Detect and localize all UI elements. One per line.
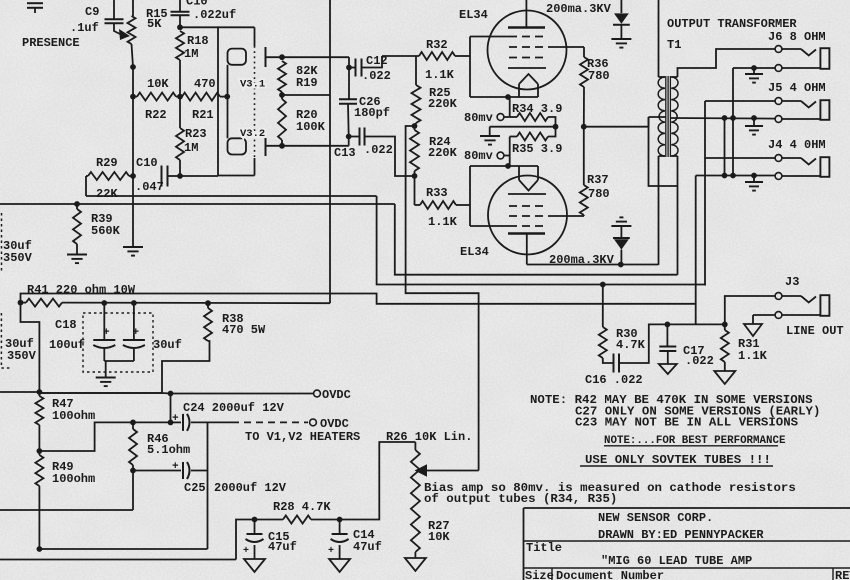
cap C18 section a 100uf [93, 303, 115, 361]
title label Document Number [556, 569, 664, 580]
grid3 row lower EL34 [509, 205, 548, 207]
ground (C14) [329, 559, 350, 572]
svg-text:R35 3.9: R35 3.9 [512, 142, 562, 156]
title label Size [525, 569, 554, 580]
title divider 2 [524, 567, 850, 569]
node pot/R22 [130, 94, 136, 100]
grid line V3 (dash-dot) [254, 27, 256, 175]
svg-text:TO V1,V2 HEATERS: TO V1,V2 HEATERS [245, 430, 360, 444]
node speaker line / R30 [600, 282, 606, 288]
ground (R39) [67, 255, 87, 264]
svg-text:C25: C25 [184, 481, 206, 495]
svg-text:V3.2: V3.2 [240, 128, 265, 140]
node R34/R35/gnd [553, 124, 559, 130]
svg-text:350V: 350V [3, 251, 33, 265]
svg-text:+: + [103, 327, 110, 339]
svg-text:100K: 100K [296, 120, 326, 134]
label 200ma.3KV lower [549, 253, 615, 267]
cathode bar V3.2 [266, 136, 283, 157]
secondary bottom lead [671, 156, 677, 275]
note C27 [575, 405, 820, 419]
wire left edge to R47 node [0, 391, 39, 393]
label PRESENCE [22, 36, 80, 50]
plate bracket V3.1 [228, 49, 247, 65]
svg-text:.022: .022 [364, 143, 393, 157]
svg-text:C24 2000uf 12V: C24 2000uf 12V [183, 401, 285, 415]
cathode wire upper EL34 [470, 94, 538, 100]
node R46 bottom [130, 468, 136, 474]
cathode wire lower EL34 [470, 163, 538, 169]
svg-text:R41 220 ohm 10W: R41 220 ohm 10W [27, 283, 136, 297]
capacitor C18 box (dashed) [49, 313, 153, 372]
wire common bus (R39 line) [0, 204, 678, 275]
resistor R31 1.1K [721, 324, 768, 371]
triode V3.1/V3.2 envelope box [218, 27, 255, 175]
center tap wire [649, 117, 678, 186]
svg-text:C23 MAY NOT BE IN ALL VERSIONS: C23 MAY NOT BE IN ALL VERSIONS [575, 416, 799, 430]
svg-text:LINE OUT: LINE OUT [786, 324, 844, 338]
svg-text:OVDC: OVDC [320, 417, 349, 431]
resistor R30 4.7K [599, 285, 646, 364]
resistor R21 470 [180, 77, 228, 122]
wire R19-R20 node to V3 bus [282, 94, 330, 96]
terminal OVDC lower [310, 417, 349, 431]
title block frame [524, 508, 850, 580]
svg-text:C13: C13 [334, 146, 356, 160]
jack J4 tip+body [705, 155, 829, 180]
ground (lower diode, inverted) [611, 217, 631, 226]
capacitor (cut off at top edge) [27, 3, 43, 13]
svg-text:"MIG 60 LEAD TUBE AMP: "MIG 60 LEAD TUBE AMP [601, 554, 752, 568]
capacitor C10 .047 [135, 156, 180, 194]
wire R47 node to C24 line [39, 422, 133, 451]
svg-text:780: 780 [588, 187, 610, 201]
svg-text:30uf: 30uf [153, 338, 182, 352]
primary bottom lead [659, 156, 666, 265]
wire R28 to R26 [340, 442, 416, 520]
note best performance [604, 435, 786, 447]
wire heater line upper [39, 392, 162, 394]
grid1 row upper EL34 [470, 36, 548, 38]
wire cathode node to ground [490, 127, 556, 136]
svg-text:+: + [172, 461, 179, 473]
svg-text:R32: R32 [426, 38, 448, 52]
label C24 2000uf 12V [183, 401, 285, 415]
svg-text:of output tubes (R34, R35): of output tubes (R34, R35) [424, 492, 617, 506]
note bias line2 [424, 492, 617, 506]
svg-text:780: 780 [588, 69, 610, 83]
plate bar lower EL34 [508, 232, 545, 234]
diode (flyback upper) [613, 0, 630, 39]
svg-text:80mv: 80mv [464, 111, 493, 125]
wire line-out node [667, 323, 724, 325]
node R49 bottom rail [37, 546, 43, 552]
wire V3.2 cathode to C13 node [282, 137, 349, 146]
svg-text:200ma.3KV: 200ma.3KV [546, 2, 612, 16]
svg-text:1M: 1M [184, 47, 198, 61]
svg-text:.047: .047 [135, 180, 164, 194]
node C16/C17/R31 line [665, 322, 671, 328]
resistor R37 780 [580, 127, 610, 216]
svg-text:C16 .022: C16 .022 [585, 373, 643, 387]
svg-text:V3.1: V3.1 [240, 79, 265, 91]
svg-text:1.1K: 1.1K [425, 68, 455, 82]
svg-text:R34 3.9: R34 3.9 [512, 102, 562, 116]
wire C24 to OVDC [191, 421, 308, 423]
primary top lead [659, 0, 666, 77]
svg-text:220K: 220K [428, 97, 458, 111]
svg-text:.022uf: .022uf [193, 8, 236, 22]
resistor R38 470 5W [39, 303, 266, 393]
label OUTPUT TRANSFORMER [667, 17, 797, 31]
svg-text:Title: Title [526, 541, 562, 555]
svg-text:EL34: EL34 [460, 245, 489, 259]
beam plate bar lower EL34 [508, 193, 546, 195]
svg-text:180pf: 180pf [354, 106, 390, 120]
svg-text:OUTPUT TRANSFORMER: OUTPUT TRANSFORMER [667, 17, 797, 31]
jack J6 tip+body [775, 46, 829, 72]
wire bottom rail 2 [0, 520, 255, 560]
grid3 row upper EL34 [509, 57, 548, 59]
wire R46 bottom to left rail [0, 471, 133, 511]
test point 80mv lower [464, 149, 510, 163]
secondary top lead [671, 49, 775, 77]
capacitor C14 47uf [328, 520, 382, 560]
capacitor C12 .022 [349, 54, 391, 83]
resistor R19 82K [278, 61, 318, 92]
jack J4 sleeve wire [696, 173, 775, 179]
svg-text:C9: C9 [85, 5, 99, 19]
node C13/C26 [346, 134, 352, 140]
plate bar upper EL34 [508, 26, 545, 28]
capacitor C16 .022 [585, 324, 667, 387]
svg-text:.1uf: .1uf [70, 21, 99, 35]
note R42 [530, 393, 813, 407]
node C18 cap2 [131, 300, 137, 306]
grid2 row upper EL34 [509, 46, 584, 48]
ground (R26/R27) [405, 552, 426, 571]
svg-text:22K: 22K [96, 187, 118, 201]
node R18/R21/R22 [177, 94, 183, 100]
node C15 [252, 517, 258, 523]
node C14 [337, 517, 343, 523]
ground (J5 sleeve) [745, 118, 763, 135]
capacitor C24 2000uf [133, 413, 190, 431]
label V3.1 [240, 79, 265, 91]
ground (presence pot) [123, 247, 143, 256]
potentiometer R15 5K (presence) [128, 0, 168, 67]
title label REV [833, 568, 850, 580]
node R25/R24/bias [412, 123, 418, 129]
ground (cathode R34/R35) [480, 136, 500, 145]
wire V3.1 cathode to C12 [282, 57, 349, 67]
resistor R39 560K [73, 201, 121, 254]
node R38 top [205, 300, 211, 306]
jack J6 sleeve wire [733, 65, 775, 71]
svg-text:80mv: 80mv [464, 149, 493, 163]
resistor R27 10K labels [428, 519, 450, 544]
svg-text:R19: R19 [296, 76, 318, 90]
svg-text:R22: R22 [145, 108, 167, 122]
cap C18 section b 30uf [123, 303, 145, 361]
jack J5 tip+body [705, 98, 829, 123]
svg-text:R18: R18 [187, 34, 209, 48]
label 200ma.3KV upper [546, 2, 612, 16]
label V3.2 [240, 128, 265, 140]
svg-text:47uf: 47uf [268, 540, 297, 554]
node C24 left [168, 420, 174, 426]
cathode drop to R34 [509, 97, 511, 117]
bias feed wire from R25/R24 node [406, 126, 479, 471]
svg-text:47uf: 47uf [353, 540, 382, 554]
svg-text:+: + [243, 546, 249, 557]
svg-text:5.1ohm: 5.1ohm [147, 443, 190, 457]
label J4 4 0HM [768, 138, 826, 152]
wire C10 node to V3 grid box [180, 26, 218, 28]
svg-text:R33: R33 [426, 186, 448, 200]
svg-text:100uf: 100uf [49, 338, 85, 352]
test point 80mv upper [464, 111, 510, 125]
node lower diode on plate bus [618, 262, 624, 268]
wiper arrow of presence pot [114, 23, 130, 40]
svg-text:Size: Size [525, 569, 554, 580]
label 30uf (C18b) [153, 338, 182, 352]
plate link V3.1-V3.2 with R21 node [224, 65, 230, 139]
wire supply line [21, 294, 696, 304]
title cell divider [551, 568, 553, 580]
label R28 4.7K [273, 500, 331, 514]
plate lead lower EL34 [526, 234, 528, 265]
svg-text:10K: 10K [147, 77, 169, 91]
wire C24/C25 right side down [207, 422, 209, 549]
cathode bar V3.1 [266, 47, 283, 67]
svg-text:4.7K: 4.7K [616, 338, 646, 352]
capacitor C15 47uf [243, 520, 297, 560]
node R36/R37/tap [581, 124, 587, 130]
tube EL34 lower envelope [460, 176, 567, 260]
capacitor C9 [70, 0, 124, 35]
title text MIG 60 [601, 554, 752, 568]
capacitor C10 .022uf (top) [171, 0, 237, 27]
note C23 [575, 416, 799, 430]
terminal OVDC upper [314, 388, 351, 402]
svg-text:100ohm: 100ohm [52, 472, 95, 486]
wire screen node to center tap [584, 126, 649, 128]
resistor R32 1.1K [382, 38, 470, 82]
wire C13 to R24/R33 node [365, 137, 415, 177]
transformer T1 primary winding [658, 77, 665, 156]
svg-text:350V: 350V [7, 349, 37, 363]
node V3.1 cathode [279, 54, 285, 60]
node R18/C10 top [177, 24, 183, 30]
filter cap box upper-left (30uf 350V) [2, 213, 33, 271]
title text NEW SENSOR CORP. [598, 511, 713, 525]
svg-text:.022: .022 [685, 354, 714, 368]
beam plate bar upper EL34 [508, 67, 546, 69]
wiper arrow R26 [415, 464, 479, 477]
transformer T1 secondary winding [671, 77, 678, 156]
wire R29 left to feedback line [85, 176, 87, 196]
jack J3 tip+body [725, 293, 830, 325]
resistor R29 22K [86, 156, 133, 201]
ground (C17) [659, 364, 677, 374]
wire V3.2 grid from C10 node [180, 175, 218, 177]
wire C26 bottom lead [347, 104, 350, 137]
capacitor C17 .022 [659, 324, 714, 368]
tap wire to J5 [670, 117, 775, 120]
label R26 10K Lin. [386, 430, 472, 444]
wire J5/J4 tip riser [704, 101, 706, 286]
resistor R28 4.7K [255, 516, 340, 524]
resistor R49 100ohm [35, 451, 95, 549]
ground (J4 sleeve) [745, 176, 763, 191]
wire C12 to R32 [362, 56, 383, 68]
svg-text:REV: REV [835, 569, 850, 580]
title label Title [526, 541, 562, 555]
note sovtek [580, 453, 773, 467]
ground (C15) [244, 559, 265, 572]
grid return box lower EL34 [469, 166, 471, 226]
label J6 8 OHM [768, 30, 826, 44]
resistor R47 100ohm [35, 392, 95, 451]
resistor R35 3.9 [510, 127, 563, 156]
grid return box upper EL34 [469, 37, 471, 98]
svg-text:C18: C18 [55, 318, 77, 332]
note bias line1 [424, 481, 796, 495]
ground (J6 sleeve) [745, 68, 763, 83]
node R29/C10/pot [130, 173, 136, 179]
title divider 1 [524, 540, 850, 542]
svg-text:EL34: EL34 [459, 8, 488, 22]
filter cap box lower-left (30uf 350V) [1, 313, 36, 368]
title text DRAWN BY [598, 528, 764, 542]
node R46 top [130, 420, 136, 426]
resistor R20 100K [278, 92, 326, 146]
label T1 [667, 38, 681, 52]
svg-text:C10: C10 [136, 156, 158, 170]
svg-text:J3: J3 [785, 275, 799, 289]
resistor R18 1M [176, 31, 209, 97]
wire bottom rail [39, 548, 207, 550]
wire feedback bus (R29 to speaker line) [86, 196, 705, 286]
resistor R24 220K [410, 126, 458, 176]
cathode upper EL34 [519, 74, 538, 97]
jack J3 sleeve wire [753, 315, 775, 324]
resistor R34 3.9 [510, 102, 563, 127]
svg-text:DRAWN BY:ED PENNYPACKER: DRAWN BY:ED PENNYPACKER [598, 528, 764, 542]
wire C18 negative bus [104, 361, 134, 377]
svg-text:J5 4 OHM: J5 4 OHM [768, 81, 826, 95]
svg-text:R26 10K Lin.: R26 10K Lin. [386, 430, 472, 444]
svg-text:USE ONLY SOVTEK TUBES !!!: USE ONLY SOVTEK TUBES !!! [585, 453, 771, 467]
transformer T1 core [666, 76, 671, 157]
wire C26 top lead [348, 68, 350, 100]
label TO V1,V2 HEATERS [245, 430, 360, 444]
capacitor C26 180pf [339, 95, 390, 120]
grid2 row lower EL34 [509, 215, 584, 217]
svg-text:J4 4 0HM: J4 4 0HM [768, 138, 826, 152]
svg-text:J6 8 OHM: J6 8 OHM [768, 30, 826, 44]
svg-text:R21: R21 [192, 108, 214, 122]
svg-text:220K: 220K [428, 146, 458, 160]
plate bracket V3.2 [228, 138, 247, 154]
svg-text:R28 4.7K: R28 4.7K [273, 500, 331, 514]
resistor R46 5.1ohm [129, 422, 190, 470]
svg-text:PRESENCE: PRESENCE [22, 36, 80, 50]
node R47 top [37, 389, 43, 395]
cathode riser lower EL34 [509, 137, 511, 167]
wire pot down to C10 node [132, 97, 134, 176]
capacitor C25 2000uf [133, 461, 287, 495]
resistor R36 780 [580, 47, 610, 127]
svg-text:+: + [172, 413, 179, 425]
resistor R33 1.1K [415, 176, 471, 229]
resistor R25 220K [412, 56, 458, 126]
svg-text:2000uf 12V: 2000uf 12V [214, 481, 287, 495]
svg-text:100ohm: 100ohm [52, 409, 95, 423]
svg-text:+: + [133, 327, 140, 339]
svg-text:+: + [328, 546, 334, 557]
svg-text:1.1K: 1.1K [428, 215, 458, 229]
svg-text:.022: .022 [362, 69, 391, 83]
label J3 [785, 275, 799, 289]
node C24 drop [162, 391, 314, 397]
wire pot to R22 node [130, 64, 136, 97]
grid1 row lower EL34 [470, 225, 548, 227]
node R19/R20 [279, 92, 285, 98]
svg-text:1M: 1M [184, 141, 198, 155]
potentiometer R26 10K [411, 442, 420, 552]
ground (R31) [714, 371, 735, 384]
wire C24 drop [170, 394, 172, 423]
node R24/R33/C13 [412, 173, 418, 179]
wire jack common risers [725, 68, 734, 176]
resistor R41 220ohm [18, 299, 330, 307]
jack J5 sleeve dots [722, 115, 757, 121]
wire pot bottom to ground [132, 176, 134, 246]
cathode lower EL34 [519, 166, 538, 191]
node V3.2 cathode [279, 143, 285, 149]
svg-text:470: 470 [194, 77, 216, 91]
capacitor C13 .022 [334, 128, 393, 161]
wire plate bus lower EL34 to primary [527, 264, 659, 266]
ground (J3 sleeve) [744, 324, 762, 336]
label R41 220 ohm 10W [27, 283, 136, 297]
node C12/C26 [346, 65, 352, 71]
node C18 cap1 [101, 300, 107, 306]
bus V3 stage vertical [329, 0, 331, 303]
label LINE OUT [786, 324, 844, 338]
tube EL34 upper envelope [459, 8, 567, 90]
svg-text:Document Number: Document Number [556, 569, 664, 580]
svg-text:R29: R29 [96, 156, 118, 170]
node R23/C10b [177, 173, 183, 179]
svg-text:470 5W: 470 5W [222, 323, 266, 337]
resistor R22 10K [133, 77, 180, 122]
ground (upper diode) [611, 39, 631, 48]
wire R41 to lower-left chain [21, 303, 40, 392]
node R47/R49 [37, 448, 43, 454]
svg-text:NEW SENSOR CORP.: NEW SENSOR CORP. [598, 511, 713, 525]
svg-text:R37: R37 [587, 173, 609, 187]
label J5 4 OHM [768, 81, 826, 95]
svg-text:R23: R23 [185, 127, 207, 141]
wire J4 common down to bus [695, 176, 697, 325]
ground (C18) [96, 378, 116, 387]
svg-text:T1: T1 [667, 38, 681, 52]
diode (flyback lower) [613, 226, 630, 265]
svg-text:560K: 560K [91, 224, 121, 238]
